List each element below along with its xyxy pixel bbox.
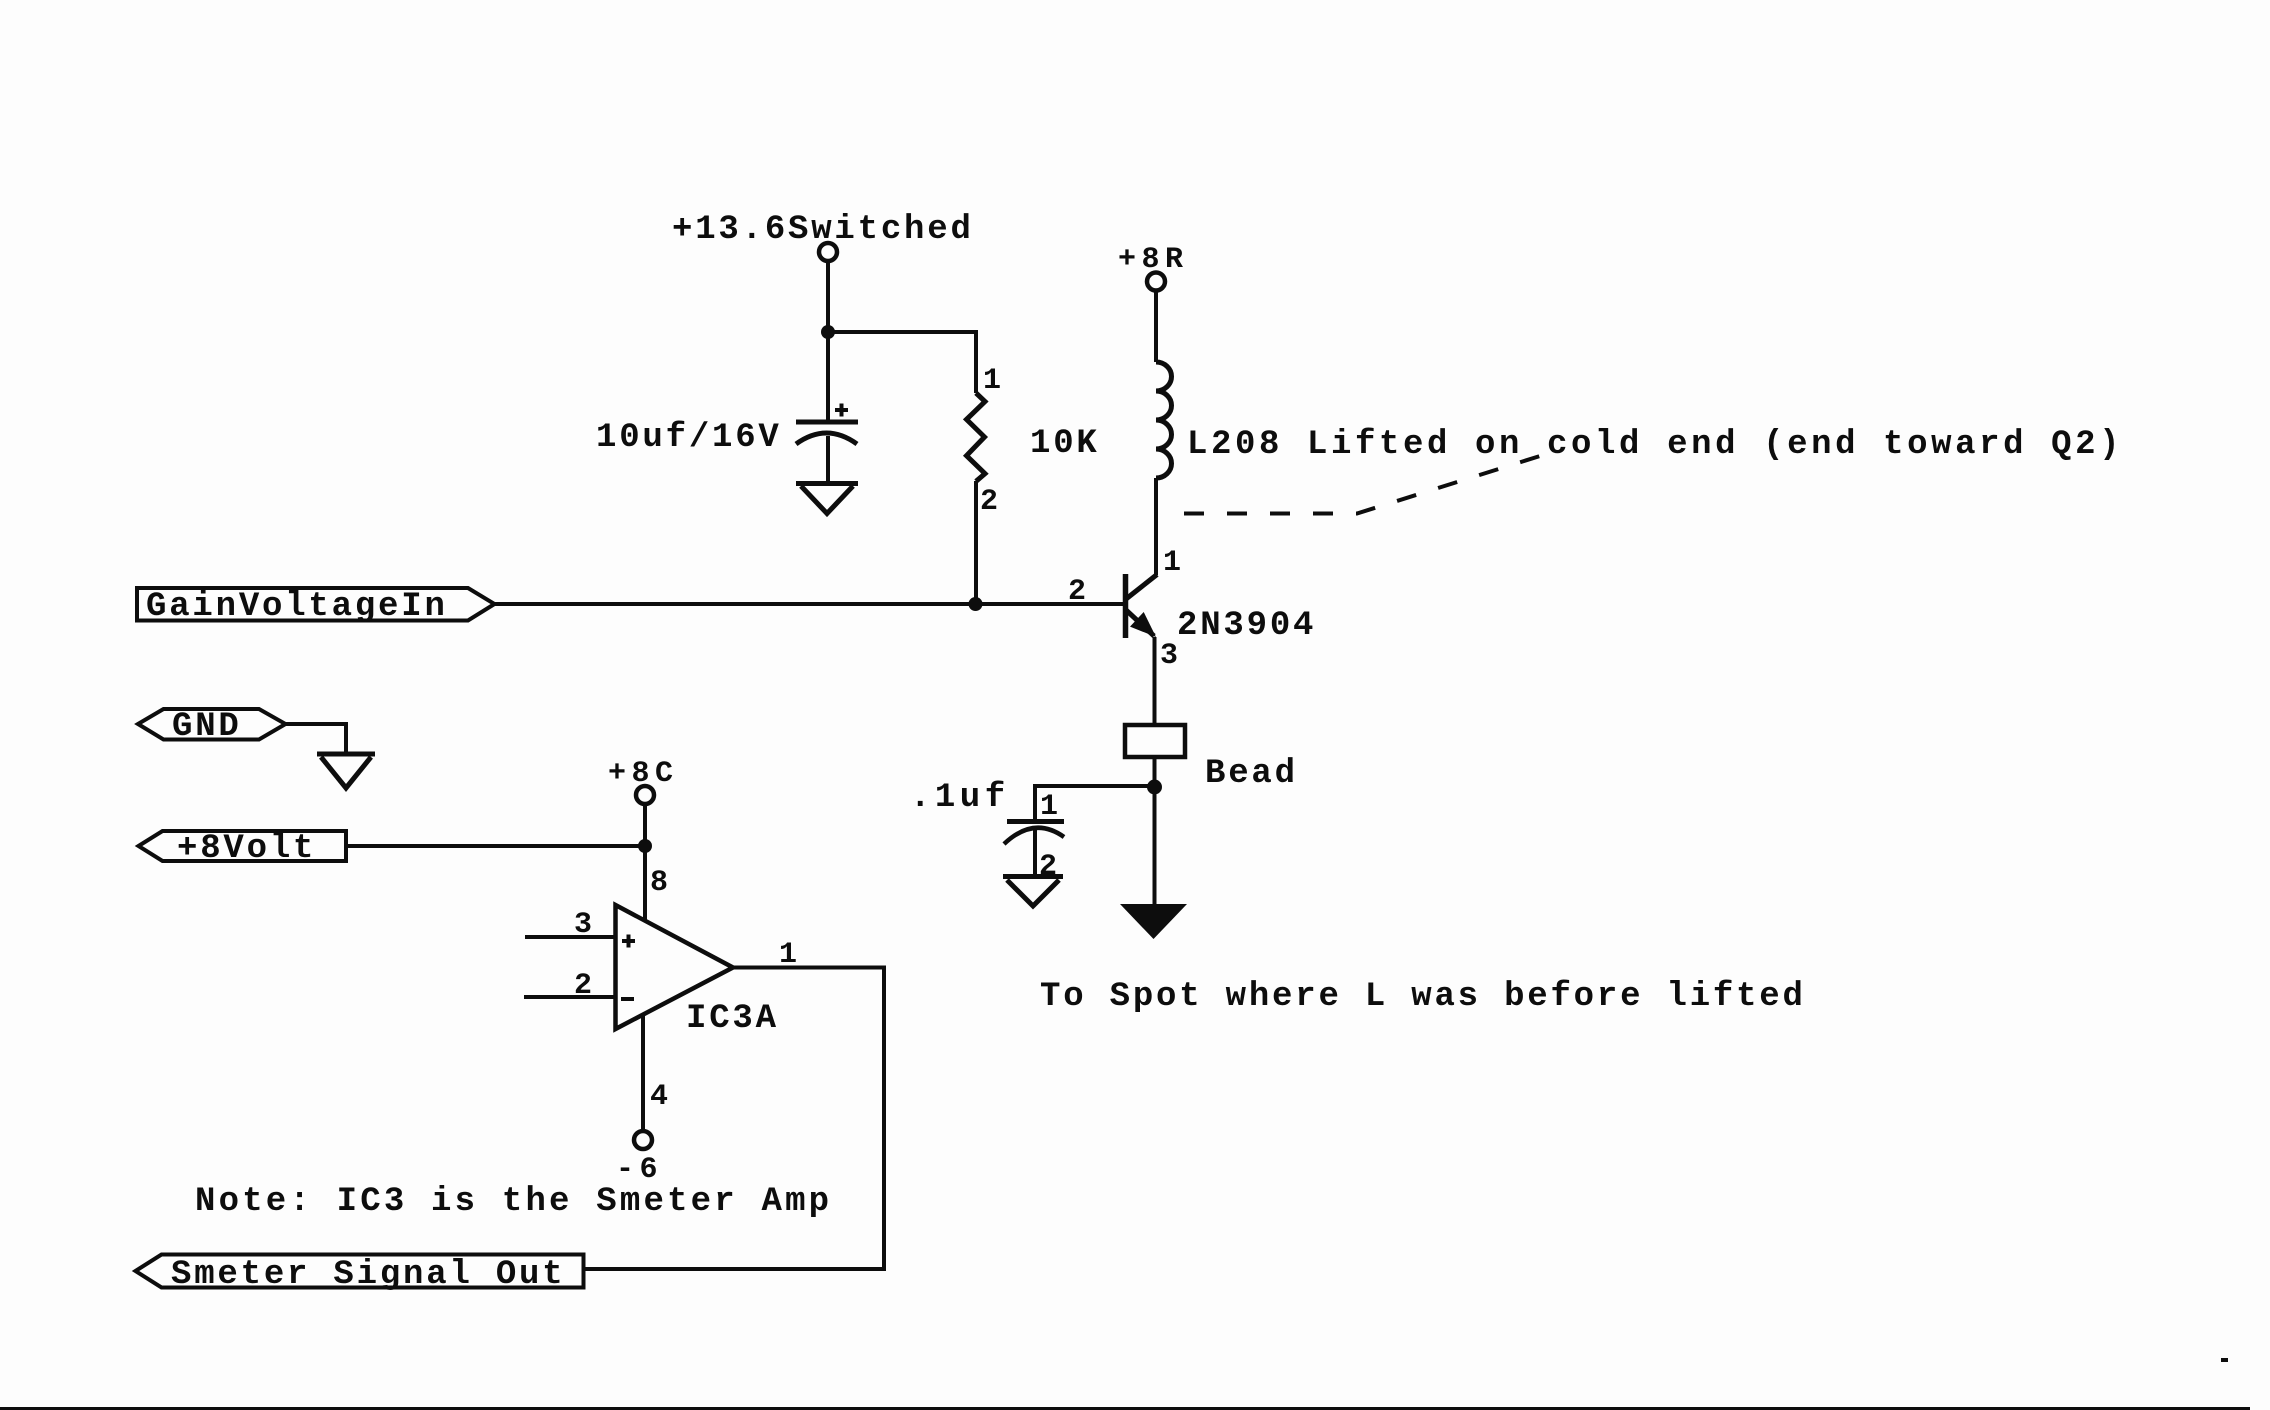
wire op-amp pin 4	[641, 1015, 645, 1131]
wire node to op-amp pin 8	[643, 846, 647, 920]
junction node at top of C1 and R1	[821, 325, 835, 339]
transistor Q1 2N3904 base bar	[1123, 574, 1129, 638]
svg-text:L208 Lifted on cold end (end t: L208 Lifted on cold end (end toward Q2)	[1187, 426, 2123, 464]
junction node below bead	[1147, 780, 1162, 795]
capacitor C1 curved bottom plate	[796, 433, 857, 444]
net flag GainVoltageIn	[137, 588, 495, 621]
svg-text:10uf/16V: 10uf/16V	[596, 419, 782, 457]
capacitor C1 top plate	[796, 420, 858, 425]
dashed leader line from lifted end	[1184, 456, 1540, 514]
ground symbol at GND flag	[317, 754, 375, 788]
ferrite bead body	[1125, 725, 1185, 757]
svg-text:4: 4	[650, 1080, 670, 1114]
svg-text:3: 3	[1160, 639, 1180, 673]
bottom border line	[0, 1407, 2250, 1410]
wire GainVoltageIn to transistor base	[494, 602, 1125, 606]
op-amp plus input mark	[622, 935, 635, 948]
capacitor C2 curved bottom plate	[1004, 828, 1064, 844]
power terminal +13.6Switched circle	[819, 243, 837, 261]
svg-text:1: 1	[1163, 546, 1183, 580]
capacitor C1 plus sign	[835, 404, 848, 417]
transistor Q1 collector diagonal	[1126, 575, 1157, 600]
svg-text:1: 1	[1040, 790, 1060, 824]
svg-text:1: 1	[983, 364, 1003, 398]
inductor L208 coil	[1156, 362, 1172, 478]
transistor Q1 emitter arrow	[1130, 612, 1156, 637]
capacitor C1 bottom lead	[826, 436, 830, 483]
wire inductor bottom to transistor collector	[1154, 478, 1158, 575]
net flag Smeter Signal Out	[136, 1255, 584, 1288]
scan artifact dash bottom right	[2221, 1358, 2228, 1362]
net flag +8Volt	[139, 831, 347, 861]
svg-text:Bead: Bead	[1205, 755, 1298, 793]
capacitor C2 bottom lead	[1033, 830, 1037, 876]
op-amp minus input mark	[621, 997, 634, 1001]
svg-text:+8Volt: +8Volt	[177, 830, 316, 868]
svg-text:Smeter Signal Out: Smeter Signal Out	[171, 1256, 565, 1294]
resistor R1 10K zigzag	[967, 393, 986, 481]
ground symbol below C2	[1003, 877, 1063, 907]
svg-text:-6: -6	[616, 1153, 663, 1187]
op-amp IC3A triangle	[616, 905, 734, 1029]
svg-text:2: 2	[574, 969, 594, 1003]
wire bead to ground	[1153, 757, 1157, 906]
wire +8R to inductor	[1154, 291, 1158, 362]
svg-text:IC3A: IC3A	[686, 1000, 779, 1038]
wire resistor bottom to base node	[974, 481, 978, 604]
svg-text:.1uf: .1uf	[910, 779, 1010, 817]
svg-text:2N3904: 2N3904	[1177, 607, 1316, 645]
svg-text:10K: 10K	[1030, 425, 1100, 463]
svg-text:3: 3	[574, 908, 594, 942]
wire +8C to node	[643, 805, 647, 846]
power terminal -6 circle	[634, 1131, 652, 1149]
wire op-amp output to Smeter flag	[584, 968, 884, 1270]
svg-text:GainVoltageIn: GainVoltageIn	[146, 588, 448, 626]
capacitor C1 lead from node	[826, 332, 830, 420]
filled ground arrow to spot	[1120, 904, 1187, 939]
capacitor C2 top plate	[1007, 819, 1064, 824]
junction node +8Volt/+8C	[638, 839, 652, 853]
svg-text:8: 8	[650, 866, 670, 900]
wire op-amp pin 3	[525, 935, 615, 939]
power terminal +8C circle	[636, 786, 654, 804]
power terminal +8R circle	[1147, 273, 1165, 291]
wire emitter to bead	[1153, 637, 1157, 725]
ground symbol below C1	[796, 484, 858, 514]
svg-text:2: 2	[980, 485, 1000, 519]
svg-text:2: 2	[1068, 575, 1088, 609]
wire GND flag to ground symbol	[286, 724, 347, 752]
wire node to capacitor C2	[1035, 786, 1155, 820]
wire node to resistor top	[828, 332, 976, 393]
svg-text:To Spot where L was before lif: To Spot where L was before lifted	[1040, 978, 1806, 1016]
net flag GND	[138, 709, 286, 740]
svg-text:Note: IC3 is the Smeter Amp: Note: IC3 is the Smeter Amp	[195, 1183, 832, 1221]
wire from +13.6Switched terminal down to node	[826, 261, 830, 332]
svg-text:GND: GND	[172, 708, 242, 746]
junction node base/resistor	[969, 597, 983, 611]
wire op-amp pin 2	[524, 995, 615, 999]
wire +8Volt to op-amp supply node	[346, 844, 645, 848]
transistor Q1 emitter diagonal	[1126, 610, 1154, 636]
